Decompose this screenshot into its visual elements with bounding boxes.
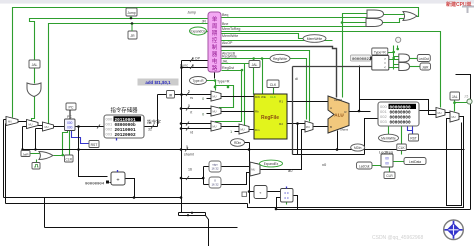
svg-text:0 0: 0 0 (284, 196, 289, 200)
svg-text:控: 控 (212, 36, 218, 44)
svg-text:MemWrite: MemWrite (307, 37, 322, 41)
tunnel JR (128, 24, 137, 40)
svg-text:«: « (260, 191, 262, 195)
svg-text:WE: WE (261, 95, 266, 99)
svg-text:路: 路 (212, 64, 218, 72)
wire imm16 to extenders (182, 167, 210, 185)
wire right border (277, 75, 471, 210)
svg-text:rs: rs (190, 96, 193, 100)
svg-text:00: 00 (385, 157, 389, 161)
wire JAL tunnel to mux2 select and pin (455, 101, 468, 112)
tunnel RDin (231, 139, 245, 147)
svg-text:shamt: shamt (184, 153, 194, 157)
tunnel RST below RAM (409, 134, 419, 141)
tunnel CLR near PC (65, 155, 74, 162)
svg-text:<: < (384, 66, 386, 70)
or-gate clock (PC clk) (39, 152, 53, 160)
svg-text:RST: RST (91, 143, 98, 147)
mux A (read reg 1) (211, 91, 221, 101)
svg-text:003: 003 (106, 132, 113, 137)
tunnel TypeR left oval (190, 77, 230, 85)
wire adder out (126, 179, 135, 198)
node dots green (62, 21, 456, 156)
svg-text:RegDst: RegDst (222, 66, 234, 70)
tunnel MemWrite below RAM (379, 134, 399, 142)
top toolbar strip (0, 0, 474, 4)
svg-text:电: 电 (212, 57, 218, 65)
svg-text:RW: RW (255, 95, 260, 99)
svg-text:=: = (384, 61, 386, 65)
svg-text:16 32: 16 32 (212, 183, 219, 187)
LedReg register (379, 150, 393, 168)
mux C (RegDst) (211, 121, 221, 131)
RegFile U2 (254, 94, 287, 139)
wire RAM MemWrite (388, 127, 390, 136)
svg-text:ExpandOp: ExpandOp (190, 30, 205, 34)
svg-text:MU: MU (306, 125, 310, 129)
wire net Beq (222, 17, 368, 19)
svg-text:00: 00 (385, 162, 389, 166)
control unit pin labels right (180, 11, 240, 71)
wire RegFile R1 to ALU A (288, 101, 329, 103)
register PC (65, 115, 76, 131)
pink box bottom stub (214, 73, 216, 79)
svg-text:CLK: CLK (270, 83, 277, 87)
svg-text:器: 器 (212, 51, 218, 58)
branch and-gate G5 (366, 19, 383, 27)
svg-text:ExpandEx: ExpandEx (264, 162, 279, 166)
svg-text:add $t1,$0,1: add $t1,$0,1 (145, 80, 171, 85)
wire mux C out to mux D (222, 126, 240, 128)
wire RDin (245, 143, 293, 204)
svg-text:CLK: CLK (398, 146, 405, 150)
tunnel LedOut left (357, 162, 373, 169)
svg-text:00000000: 00000000 (390, 120, 411, 125)
bit extender E2 (zero) (209, 177, 221, 188)
wire net TypeR to mux selects (207, 81, 234, 109)
wire net AluSrcB (222, 51, 310, 122)
svg-text:rt: rt (190, 111, 192, 115)
wire IM out to IR (145, 61, 209, 127)
wire mux2 out writeback (248, 117, 464, 208)
wire net MemWrite (222, 34, 304, 39)
svg-text:AluOP: AluOP (222, 41, 233, 45)
tunnel CLR below LedReg (384, 172, 395, 179)
wire rs rt rd branches (182, 95, 212, 129)
svg-text:MDin: MDin (354, 146, 362, 150)
svg-text:00000022: 00000022 (352, 58, 372, 62)
ALU U3 (328, 96, 349, 133)
svg-text:LedData: LedData (409, 160, 421, 164)
svg-text:单: 单 (212, 15, 218, 23)
svg-text:CLR: CLR (386, 174, 393, 178)
svg-text:RegWrite: RegWrite (222, 55, 237, 59)
svg-text:JAL: JAL (452, 95, 458, 99)
wire RegFile R2 to AluSrcB mux and RAM Din (288, 119, 379, 155)
wire shifter register2 (250, 192, 298, 210)
svg-text:R2: R2 (279, 122, 283, 126)
svg-text:J.5: J.5 (464, 95, 468, 99)
svg-text:MemWrite: MemWrite (222, 34, 238, 38)
wire net Branch feedback (OR gate to PC mux select) (13, 8, 419, 118)
svg-text:JAL: JAL (252, 63, 258, 67)
wire net MemToReg (222, 32, 441, 108)
svg-text:a0: a0 (288, 168, 293, 173)
wire AND to LedOut (410, 58, 418, 60)
wire net JR (49, 24, 209, 124)
wire comparator feed loop (293, 67, 372, 155)
svg-text:Shamt: Shamt (340, 128, 348, 132)
clock component 0ns (32, 163, 40, 170)
wire net AluOP green (222, 40, 333, 42)
svg-text:Type=R: Type=R (374, 51, 386, 55)
bit extender E1 (sign) (209, 161, 221, 172)
constant 00000022 (351, 55, 374, 62)
wire shamt branch (337, 131, 339, 150)
svg-text:PC: PC (67, 115, 72, 119)
tunnel MemWrite oval top (303, 35, 326, 43)
tunnel JalR (420, 63, 431, 70)
wire IR out / instruction bus vertical (175, 61, 182, 213)
svg-text:RegWrite: RegWrite (273, 57, 287, 61)
svg-text:A: A (330, 106, 332, 110)
svg-text:OP: OP (195, 57, 201, 61)
tunnel TypeR top right (372, 48, 388, 55)
wire mux D out to RegFile Din (250, 129, 255, 131)
wire PC clock from OR (31, 131, 70, 163)
svg-text:JAL: JAL (32, 63, 38, 67)
wire net RegWrite (222, 59, 307, 120)
branch and-gate G4 (367, 10, 384, 18)
shifter S1 (254, 186, 267, 199)
pc mux M3 (43, 122, 54, 131)
bus width labels rs rt rd shamt (148, 57, 194, 172)
wire net Zero from ALU to branch gates (343, 14, 368, 98)
wire PC+4 vertical (23, 127, 465, 177)
tiny pin E (242, 192, 247, 197)
svg-text:MU: MU (8, 119, 12, 123)
wire PC out to instruction memory (76, 126, 105, 128)
register R2 small (281, 187, 294, 203)
svg-text:JR: JR (130, 34, 135, 38)
svg-text:0 0: 0 0 (284, 191, 289, 195)
wire bottom line 1 (4, 198, 248, 228)
mux MU labels (8, 94, 456, 171)
svg-text:MU: MU (452, 115, 456, 119)
wire net Bne (222, 26, 367, 28)
svg-text:JR: JR (202, 20, 207, 24)
svg-text:CLR: CLR (66, 158, 73, 162)
adder PC+4 (111, 170, 125, 185)
data memory RAM (378, 102, 419, 126)
svg-text:CSDN @qq_45962968: CSDN @qq_45962968 (372, 235, 423, 241)
wire register2 bottom pin (286, 202, 288, 205)
tunnel LedData (404, 158, 426, 165)
AluSrcB mux M5 (305, 121, 313, 132)
wire net RegDst (216, 64, 245, 126)
MemToReg mux M6 (436, 108, 445, 118)
wire ALU result high route to MemToReg mux (360, 100, 437, 115)
tunnel CLK below RAM (397, 144, 407, 151)
svg-text:16 32: 16 32 (212, 167, 219, 171)
not-probe circle (396, 37, 401, 42)
svg-text:AluOP: AluOP (334, 98, 342, 102)
tunnel Jump (126, 8, 137, 18)
wire LedReg connections (373, 162, 405, 173)
svg-text:指令存储器: 指令存储器 (111, 106, 139, 114)
svg-text:16: 16 (188, 168, 192, 172)
tunnel MDin (351, 144, 365, 151)
control unit U1 (pink) (208, 12, 221, 72)
wire PC reset (72, 131, 90, 144)
mux B (read reg 2) (211, 106, 221, 116)
constant 00000004 (85, 181, 109, 187)
tunnel ExpandEx (260, 160, 283, 167)
tunnel CLK above RegFile (267, 80, 279, 88)
wire PC mux chain (4, 120, 65, 129)
and-gate G3 (JalR) (399, 63, 410, 71)
and-gate G2 (LedOut) (399, 54, 410, 62)
svg-text:Func: Func (180, 64, 188, 68)
wire extender outs to ExpandEx mux (222, 167, 251, 185)
wire mux A out to RegFile (222, 96, 255, 98)
svg-text:Jump: Jump (127, 11, 135, 15)
svg-text:RDin: RDin (234, 141, 241, 145)
wire ALU result (350, 66, 371, 112)
svg-text:JAL: JAL (222, 60, 228, 64)
mux D (JAL dest) (239, 124, 249, 134)
svg-text:rd: rd (190, 131, 193, 135)
svg-text:MU: MU (251, 168, 255, 172)
svg-text:Rb: Rb (255, 110, 259, 114)
svg-text:003: 003 (380, 119, 387, 124)
bus width tick marks (97, 58, 193, 180)
wire ExpandEx oval stub (257, 164, 263, 166)
tunnel LedOut (417, 55, 430, 62)
svg-text:R1: R1 (279, 100, 283, 104)
JAL mux M7 (450, 111, 459, 122)
svg-text:MU: MU (438, 111, 442, 115)
wire mux B out to RegFile (222, 111, 255, 113)
comparator U4 (372, 56, 389, 71)
svg-text:00000004: 00000004 (85, 183, 105, 187)
svg-text:制: 制 (212, 43, 217, 51)
svg-text:MU: MU (213, 94, 217, 98)
wire mux1 to mux2 (446, 113, 462, 206)
svg-text:ALU: ALU (334, 113, 344, 118)
tunnel JAL left (29, 60, 40, 68)
instruction memory ROM (104, 106, 161, 141)
svg-text:JalR: JalR (422, 66, 429, 70)
svg-text:CLK: CLK (270, 95, 276, 99)
svg-text:B: B (330, 125, 332, 129)
bus AluOP (222, 47, 337, 98)
wire bottom hook (179, 213, 209, 246)
wire TypeR comparator area (388, 46, 400, 70)
svg-text:MU: MU (45, 125, 49, 129)
svg-text:+: + (116, 178, 119, 184)
svg-text:IR: IR (169, 93, 173, 97)
svg-text:MU: MU (29, 122, 33, 126)
svg-text:Type=R: Type=R (192, 79, 204, 83)
svg-text:RegFile: RegFile (261, 115, 279, 121)
wire branch AND2 to OR (383, 19, 405, 23)
tunnel JalR bottom left (21, 151, 30, 157)
tunnel IR (167, 91, 175, 99)
wire AND to JalR (410, 66, 421, 68)
svg-text:Bne: Bne (222, 22, 228, 26)
wire net JAL (222, 63, 250, 65)
wire RAM clock (401, 127, 403, 155)
wire ExpandEx mux out (261, 130, 306, 170)
tunnel JAL right (450, 92, 460, 100)
wire constant 4 to adder (110, 182, 112, 184)
wire RegFile clock (273, 88, 275, 95)
svg-text:000: 000 (67, 126, 73, 130)
svg-text:指令字: 指令字 (147, 119, 161, 126)
svg-text:LedOut: LedOut (359, 165, 370, 169)
tunnel ExpandOp (190, 27, 207, 35)
wire AluSrcB mux out to ALU B (314, 126, 329, 128)
or-gate G1 (jump or jal, pointing down) (27, 83, 41, 97)
pc mux M1 (6, 117, 18, 126)
svg-text:Jump: Jump (187, 11, 196, 15)
svg-text:MU: MU (213, 109, 217, 113)
svg-text:MU: MU (213, 124, 217, 128)
svg-text:PC: PC (69, 106, 74, 110)
svg-text:期: 期 (212, 30, 217, 37)
svg-text:20120002: 20120002 (115, 133, 136, 138)
wire RAM reset (408, 127, 413, 135)
svg-text:周: 周 (212, 23, 217, 30)
node dots black (21, 17, 360, 217)
svg-text:MU: MU (241, 128, 245, 132)
wire constant0 stub (207, 99, 240, 132)
svg-text:LedOut: LedOut (419, 57, 430, 61)
anchor crosshair icon (444, 220, 464, 240)
wire branch AND1 to OR (384, 14, 405, 16)
svg-text:di: di (295, 77, 298, 81)
branch or-gate G6 (403, 12, 417, 21)
wire PC feedback left verticals (4, 120, 45, 228)
svg-text:Type=R: Type=R (217, 80, 230, 84)
tunnel RegWrite oval (270, 54, 290, 62)
wire RAM D out to mux (420, 110, 437, 112)
svg-text:000: 000 (67, 121, 73, 125)
svg-text:RST: RST (410, 137, 416, 141)
tunnel JAL oval mid (249, 61, 260, 68)
pc mux M2 (27, 120, 39, 129)
wire ExpandOp stub (207, 31, 209, 33)
output pin circle (467, 99, 472, 104)
label add $t1,$0,1 (138, 79, 179, 86)
svg-text:Din: Din (255, 128, 260, 132)
scrollbar corner grey (462, 7, 474, 14)
svg-text:MemWrite: MemWrite (381, 137, 396, 141)
svg-text:Beq: Beq (222, 13, 228, 17)
tunnel RST near PC (89, 141, 99, 148)
tunnel PC (66, 103, 76, 119)
svg-text:MemToReg: MemToReg (222, 27, 240, 31)
svg-text:JalR: JalR (22, 152, 29, 156)
ExpandEx mux M8 (250, 162, 260, 176)
wire net Jump (30, 19, 209, 123)
